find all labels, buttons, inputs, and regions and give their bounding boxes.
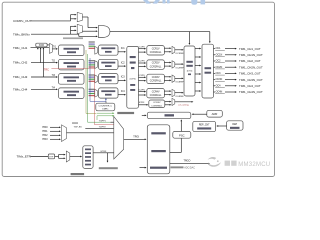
svg-text:CCR3FALL: CCR3FALL xyxy=(150,80,162,83)
counter_c DMRx box xyxy=(96,103,115,111)
wire OC2 to pin xyxy=(225,60,236,62)
wire output OC2 xyxy=(214,60,216,62)
capture prescaler box (ICPS) xyxy=(127,46,139,108)
svg-text:TIM1_CH1N_OUT: TIM1_CH1N_OUT xyxy=(239,53,263,57)
wire TI1F_ED xyxy=(85,127,114,129)
svg-text:PSC: PSC xyxy=(179,134,185,138)
svg-text:(ICPS): (ICPS) xyxy=(130,79,136,81)
wire CH2 stub to XOR xyxy=(40,48,42,63)
wire DTG to output ctrl 5 xyxy=(195,82,200,84)
wire OC3 to pin xyxy=(225,72,236,74)
wire break to DTG xyxy=(188,32,190,44)
svg-text:TIMx_CH2: TIMx_CH2 xyxy=(13,61,28,65)
mux ITR select xyxy=(62,125,67,142)
svg-text:TRC: TRC xyxy=(44,68,49,71)
svg-text:IC2: IC2 xyxy=(121,61,126,64)
svg-text:TI2FP2: TI2FP2 xyxy=(99,126,107,128)
mux output mode ch5 xyxy=(172,98,175,105)
svg-text:ITR3: ITR3 xyxy=(42,137,48,141)
wire OC3REF xyxy=(175,77,183,79)
label CK_INT xyxy=(71,173,85,175)
input filter & edge detector box ch1 xyxy=(59,45,85,56)
svg-text:CCR5V: CCR5V xyxy=(153,102,161,104)
wire DTG to output ctrl 1 xyxy=(195,48,200,50)
svg-text:cc5_setting: cc5_setting xyxy=(178,103,189,106)
wire etp fork xyxy=(55,156,59,158)
mux input select ch2 xyxy=(89,60,95,61)
wire ICPS to CCR4 xyxy=(139,91,146,93)
wire TIMx_CH3 xyxy=(31,76,57,78)
svg-text:COUNTER_C: COUNTER_C xyxy=(98,105,112,107)
input filter & edge detector box ch3 xyxy=(59,74,85,85)
wire third break input xyxy=(78,34,80,36)
wire ETRF drop xyxy=(107,153,109,162)
svg-text:OC1: OC1 xyxy=(216,47,222,50)
wire output OC1N xyxy=(214,54,216,56)
svg-text:TIM1_CH4N_OUT: TIM1_CH4N_OUT xyxy=(239,90,263,94)
mux ETR polarity xyxy=(66,151,70,162)
svg-text:OC1REF: OC1REF xyxy=(175,53,184,55)
wire stub bottom left xyxy=(140,167,146,169)
wire TI1FP1 xyxy=(111,121,114,123)
wire break output xyxy=(110,31,210,33)
svg-text:TRGI: TRGI xyxy=(133,136,139,139)
watermark top blue fragments xyxy=(143,0,205,5)
mux input select ch3 xyxy=(89,74,95,75)
mux input select ch4 xyxy=(89,89,95,90)
wire output OC2N xyxy=(214,66,216,68)
wire CCR3 to oc mux xyxy=(164,76,170,78)
svg-text:CCR1FALL: CCR1FALL xyxy=(150,51,162,54)
capture/compare register CCR1 xyxy=(147,46,165,55)
wire OC1N to pin xyxy=(225,54,236,56)
wire OC3N to pin xyxy=(225,79,236,81)
svg-text:TIM1_CH3_OUT: TIM1_CH3_OUT xyxy=(239,72,261,76)
wire CH1 stub to XOR xyxy=(37,48,39,49)
mux TI1 select xyxy=(50,43,53,53)
svg-text:OC3: OC3 xyxy=(216,72,222,75)
svg-text:IC3: IC3 xyxy=(121,76,126,79)
wire IC1 xyxy=(118,51,125,53)
output control box xyxy=(202,44,214,98)
wire ITR1 xyxy=(50,130,60,132)
input filter & edge detector box ch2 xyxy=(59,59,85,70)
wire IC4 xyxy=(118,94,125,96)
label to other timers ADC DAC xyxy=(171,166,184,168)
wire ICPS to CCR1 xyxy=(139,48,146,50)
svg-text:CCR3V: CCR3V xyxy=(152,77,160,79)
label polarity selector xyxy=(63,37,83,39)
wire output OC4 xyxy=(214,85,216,87)
svg-text:REP: REP xyxy=(232,124,237,126)
wire break to output-control xyxy=(209,32,211,43)
REP register box xyxy=(227,121,243,130)
wire green xyxy=(87,54,89,122)
wire ITR3 xyxy=(50,138,60,140)
wire TRGI xyxy=(124,138,146,140)
svg-text:TI1F_ED: TI1F_ED xyxy=(74,126,83,128)
svg-text:CCR5FALL: CCR5FALL xyxy=(151,104,163,107)
wire CH3 stub to XOR xyxy=(42,48,44,77)
wire DTG to output ctrl 2 xyxy=(195,56,200,58)
wire output OC3N xyxy=(214,79,216,81)
wire OC2REF xyxy=(175,63,183,65)
svg-text:TIMx_ETR: TIMx_ETR xyxy=(17,155,32,159)
wire green update arrows xyxy=(97,112,114,114)
svg-text:DMRx: DMRx xyxy=(102,109,109,111)
wire ITR2 xyxy=(50,134,60,136)
svg-text:ARR: ARR xyxy=(212,112,218,116)
wire DTG to output ctrl 6 xyxy=(195,90,200,92)
capture/compare register CCR4 xyxy=(147,89,165,98)
wire XOR out xyxy=(47,44,49,46)
svg-text:IC4: IC4 xyxy=(121,90,126,93)
input filter & edge detector box ch4 xyxy=(59,88,85,99)
svg-text:OC4: OC4 xyxy=(216,84,222,87)
svg-text:REP_CNT: REP_CNT xyxy=(199,124,210,126)
svg-text:TIM1_CH4_OUT: TIM1_CH4_OUT xyxy=(239,84,261,88)
svg-text:OC2REF: OC2REF xyxy=(175,67,184,69)
wire ICPS to CCR2 xyxy=(139,62,146,64)
wire ITR0 xyxy=(50,126,60,128)
wire OC4REF xyxy=(175,92,183,94)
wire CH1 xyxy=(31,47,50,49)
wire IC3 xyxy=(118,79,125,81)
wire OC1 to pin xyxy=(225,48,236,50)
mux output mode ch2 xyxy=(172,61,175,68)
wire arr to counter xyxy=(192,113,206,115)
mux trigger TRGI xyxy=(114,117,124,160)
wire ETRF xyxy=(93,152,114,154)
mux output mode ch4 xyxy=(172,89,175,96)
svg-text:ITR0: ITR0 xyxy=(42,125,48,129)
wire CCR4 to oc mux xyxy=(164,90,170,92)
wire mux2 to OR gate xyxy=(82,30,97,32)
wire psc to counter xyxy=(180,120,182,131)
svg-text:TIM1_CH2N_OUT: TIM1_CH2N_OUT xyxy=(239,65,263,69)
mux output mode ch1 xyxy=(172,46,175,53)
wire OC1REF xyxy=(175,49,183,51)
wire to CCR5 xyxy=(139,104,148,106)
svg-text:ITR2: ITR2 xyxy=(42,133,48,137)
prescaler select box ch4 xyxy=(99,88,119,98)
label to brake and deadtime xyxy=(99,167,118,169)
wire COMPx_OUT xyxy=(31,20,71,22)
svg-text:OC3REF: OC3REF xyxy=(175,82,184,84)
svg-text:MM32MCU: MM32MCU xyxy=(238,162,270,168)
svg-text:CCR2FALL: CCR2FALL xyxy=(150,65,162,68)
xor gate box xyxy=(36,43,47,47)
ETR filter box xyxy=(83,146,93,169)
mux output mode ch3 xyxy=(172,75,175,82)
wire slave to psc xyxy=(170,151,182,153)
capture/compare register CCR3 xyxy=(147,74,165,83)
wire CCR2 to oc mux xyxy=(164,62,170,64)
wire TIMx_CH4 xyxy=(31,88,57,90)
wire to ETR filter xyxy=(70,156,82,158)
svg-text:TRGO: TRGO xyxy=(184,160,191,163)
wire output OC1 xyxy=(214,48,216,50)
dead-time generator DTG xyxy=(184,46,195,96)
svg-text:OC3N: OC3N xyxy=(216,78,223,81)
wire IC2 xyxy=(118,65,125,67)
capture/compare register CCR2 xyxy=(147,60,165,69)
counter box xyxy=(147,112,191,119)
svg-text:TIM1_CH3N_OUT: TIM1_CH3N_OUT xyxy=(239,78,263,82)
svg-text:CCR1V: CCR1V xyxy=(152,48,160,50)
wire OC4N to pin xyxy=(225,91,236,93)
svg-text:CCR2V: CCR2V xyxy=(152,63,160,65)
svg-text:TIM1_CH1_OUT: TIM1_CH1_OUT xyxy=(239,47,261,51)
svg-text:ETRF: ETRF xyxy=(139,102,145,104)
prescaler select box ch2 xyxy=(99,59,119,69)
wire ICPS to CCR3 xyxy=(139,76,146,78)
slave mode controller box xyxy=(147,125,170,174)
wire ITR to trigger mux xyxy=(67,132,114,134)
wire DTG to output ctrl 3 xyxy=(195,65,200,67)
svg-text:IC1: IC1 xyxy=(121,47,126,50)
svg-text:TIM1_CH2_OUT: TIM1_CH2_OUT xyxy=(239,59,261,63)
svg-text:OC2: OC2 xyxy=(216,60,222,63)
svg-text:OC1N: OC1N xyxy=(216,53,223,56)
wire output OC4N xyxy=(214,91,216,93)
wire TI1 to filter xyxy=(52,48,57,50)
svg-text:TI1FP1: TI1FP1 xyxy=(99,120,107,122)
capture/compare register CCR5 xyxy=(149,100,165,108)
wire OC4 to pin xyxy=(225,85,236,87)
wire CCR1 to oc mux xyxy=(164,47,170,49)
svg-text:TIMx_CH4: TIMx_CH4 xyxy=(13,87,28,91)
wire TIMx_ETR xyxy=(31,156,49,158)
svg-text:(DTG): (DTG) xyxy=(187,71,193,73)
svg-text:CCR4V: CCR4V xyxy=(152,91,160,93)
svg-text:ADC/DAC: ADC/DAC xyxy=(184,166,195,169)
wire olive xyxy=(85,50,87,113)
wire mux1 to OR gate xyxy=(82,16,88,18)
wire CCR5 to mux xyxy=(165,101,171,103)
svg-text:OC2N: OC2N xyxy=(216,66,223,69)
PSC box xyxy=(173,131,191,138)
ARR box xyxy=(207,110,223,117)
wire OC2N to pin xyxy=(225,66,236,68)
ETP box xyxy=(48,154,54,159)
svg-text:OC4N: OC4N xyxy=(216,91,223,94)
wire blue xyxy=(89,58,91,101)
wire TIMx_BKINx xyxy=(31,33,79,35)
svg-text:XOR: XOR xyxy=(39,44,44,47)
watermark text xyxy=(225,161,230,166)
wire into counter xyxy=(142,114,146,116)
watermark logo xyxy=(208,157,221,167)
wire output OC3 xyxy=(214,72,216,74)
wire TRGO xyxy=(170,163,209,165)
svg-text:TIMx_CH1: TIMx_CH1 xyxy=(13,46,28,50)
mux break polarity 2 xyxy=(77,24,82,33)
svg-text:TIMx_BKINx: TIMx_BKINx xyxy=(13,32,30,36)
svg-text:TIMx_CH3: TIMx_CH3 xyxy=(13,75,28,79)
prescaler select box ch1 xyxy=(99,45,119,55)
wire TIMx_CH2 xyxy=(31,62,57,64)
wire cc5 out xyxy=(175,101,193,103)
wire rep to repcnt xyxy=(217,125,227,127)
svg-text:ITR1: ITR1 xyxy=(42,129,48,133)
svg-text:CCR4FALL: CCR4FALL xyxy=(150,94,162,97)
svg-text:COMPx_OUT: COMPx_OUT xyxy=(13,19,32,23)
wire DTG to output ctrl 4 xyxy=(195,73,200,75)
label to auto-reload register xyxy=(117,112,134,114)
svg-text:OC4REF: OC4REF xyxy=(175,96,184,98)
prescaler select box ch3 xyxy=(99,74,119,84)
REP_CNT box xyxy=(193,121,216,131)
or-gate break xyxy=(98,26,110,38)
border frame xyxy=(2,2,274,176)
mux input select ch1 xyxy=(89,41,95,42)
wire counter_c up xyxy=(105,101,107,103)
mux break polarity 1 xyxy=(77,12,82,21)
label itr out xyxy=(72,122,78,124)
